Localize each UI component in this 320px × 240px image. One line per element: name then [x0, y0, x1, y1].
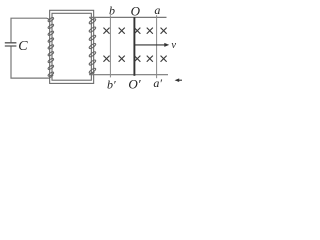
svg-text:C: C [18, 39, 28, 54]
inductor L1 primary coil [47, 17, 54, 77]
wire : secondary coil bottom lead [89, 72, 94, 74]
wire : bottom rail b'-a' [89, 74, 168, 76]
wire : secondary coil top lead [89, 18, 94, 20]
svg-text:a: a [154, 3, 160, 17]
inductor L2 secondary coil [88, 18, 96, 74]
conducting rod O-O' [133, 17, 135, 76]
svg-text:a′: a′ [153, 76, 162, 90]
wire : top rail b-a [89, 16, 166, 18]
capacitor C [5, 43, 17, 46]
wire : primary coil top lead [47, 18, 51, 20]
svg-text:O: O [131, 4, 141, 19]
wire : primary coil bottom lead [49, 75, 53, 78]
svg-text:v: v [171, 40, 176, 51]
magnetic field B into page : x symbols top row [103, 28, 166, 34]
left-pointing arrow (cut off at right edge) [177, 79, 183, 81]
velocity arrow v [135, 44, 165, 46]
svg-text:b′: b′ [107, 78, 116, 92]
transformer core (inner) [52, 13, 91, 80]
node b position line b-b' [109, 15, 111, 77]
wire : primary circuit bottom wire [11, 46, 50, 78]
transformer core (outer) [50, 10, 94, 83]
svg-text:O′: O′ [128, 77, 140, 92]
svg-text:b: b [109, 4, 115, 18]
node a position line a-a' [156, 15, 158, 78]
wire : primary circuit top wire [11, 18, 47, 43]
magnetic field B into page : x symbols bottom row [103, 56, 166, 62]
